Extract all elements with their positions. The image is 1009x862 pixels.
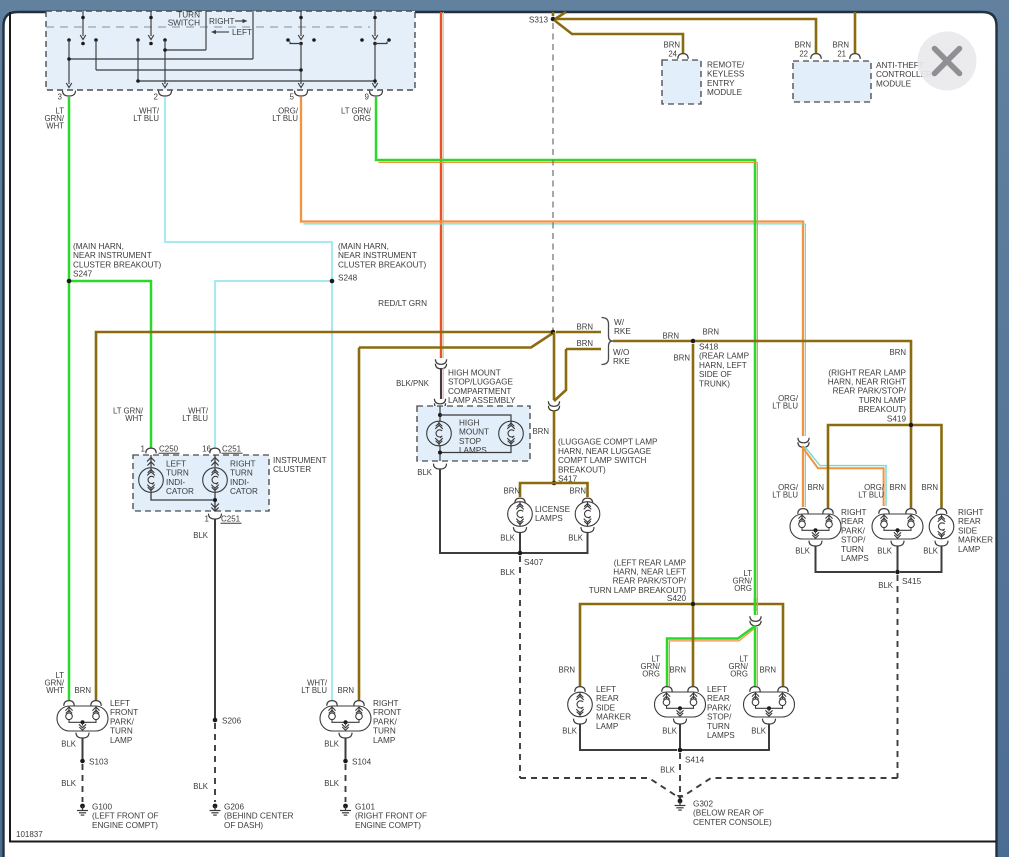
high mount lamps exit wire bbox=[417, 445, 446, 477]
wire label WHT/LT BLU at C251 bbox=[182, 407, 209, 424]
svg-text:LEFT: LEFT bbox=[707, 685, 727, 694]
svg-text:LAMP: LAMP bbox=[373, 736, 396, 745]
svg-text:WHT: WHT bbox=[46, 686, 64, 695]
label LT GRN/WHT at left front lamp bbox=[45, 671, 65, 695]
svg-text:ENGINE COMPT): ENGINE COMPT) bbox=[355, 821, 421, 830]
svg-text:1: 1 bbox=[205, 515, 210, 524]
wire BRN from node down to luggage connector bbox=[553, 332, 556, 400]
svg-text:G100: G100 bbox=[92, 803, 112, 812]
svg-text:REAR PARK/STOP/: REAR PARK/STOP/ bbox=[833, 387, 907, 396]
svg-text:S103: S103 bbox=[89, 758, 109, 767]
anti-theft controller module bbox=[793, 61, 932, 102]
node S419 with note bbox=[828, 368, 914, 427]
connector C251 pin 1 below cluster bbox=[205, 514, 242, 524]
svg-text:BLK: BLK bbox=[500, 534, 516, 543]
svg-text:S248: S248 bbox=[338, 274, 358, 283]
node at dashed and BRN junction bbox=[551, 330, 556, 335]
svg-text:TURN: TURN bbox=[373, 727, 396, 736]
wire BRN from S420 down to left rear lamp1 bbox=[692, 606, 695, 686]
right rear side marker lamp bbox=[929, 509, 954, 546]
svg-text:BRN: BRN bbox=[664, 41, 680, 50]
right rear park/stop/turn lamp 2 bbox=[872, 509, 923, 546]
connector C251 pin 16 bbox=[202, 445, 242, 454]
svg-text:STOP/: STOP/ bbox=[841, 536, 866, 545]
svg-text:(BEHIND CENTER: (BEHIND CENTER bbox=[224, 812, 294, 821]
left rear side marker lamp bbox=[568, 687, 593, 724]
svg-text:WHT: WHT bbox=[46, 122, 64, 131]
svg-text:BLK: BLK bbox=[500, 568, 516, 577]
svg-text:BLK: BLK bbox=[324, 779, 340, 788]
label WHT/LT BLU at right front lamp bbox=[301, 679, 328, 696]
svg-text:BRN: BRN bbox=[890, 348, 906, 357]
svg-text:FRONT: FRONT bbox=[110, 708, 138, 717]
label W/O RKE bbox=[613, 348, 630, 366]
node S103 bbox=[80, 758, 108, 767]
node S418 with note bbox=[691, 339, 750, 389]
svg-text:BLK: BLK bbox=[877, 547, 893, 556]
high mount stop lamp left bbox=[427, 406, 452, 446]
svg-text:101837: 101837 bbox=[16, 830, 43, 839]
svg-text:RIGHT: RIGHT bbox=[841, 508, 866, 517]
svg-text:LAMP: LAMP bbox=[110, 736, 133, 745]
svg-text:22: 22 bbox=[799, 50, 808, 59]
svg-text:(MAIN HARN,: (MAIN HARN, bbox=[338, 242, 389, 251]
svg-text:BLK: BLK bbox=[795, 547, 811, 556]
inline connector on BRN luggage wire bbox=[548, 401, 559, 411]
svg-text:(LEFT FRONT OF: (LEFT FRONT OF bbox=[92, 812, 159, 821]
svg-text:BRN: BRN bbox=[674, 354, 690, 363]
label right rear park stop turn lamps bbox=[841, 508, 869, 563]
left front park/turn lamp bbox=[57, 701, 108, 738]
svg-text:BLK: BLK bbox=[562, 727, 578, 736]
svg-text:KEYLESS: KEYLESS bbox=[707, 70, 745, 79]
svg-text:ENGINE COMPT): ENGINE COMPT) bbox=[92, 821, 158, 830]
label right rear side marker lamp bbox=[958, 508, 993, 554]
wire label LT GRN/WHT pin3 bbox=[45, 107, 65, 131]
svg-text:C250: C250 bbox=[159, 445, 179, 454]
wire BRN from right front lamp diagonal into junction bbox=[358, 348, 361, 701]
svg-text:SWITCH: SWITCH bbox=[168, 19, 200, 28]
svg-text:REAR: REAR bbox=[707, 694, 730, 703]
svg-text:CLUSTER BREAKOUT): CLUSTER BREAKOUT) bbox=[338, 260, 427, 269]
inline connector at high mount entry bbox=[434, 399, 445, 409]
turn switch RIGHT arrow label bbox=[209, 17, 248, 26]
svg-text:S418: S418 bbox=[699, 343, 719, 352]
svg-text:TURN: TURN bbox=[166, 469, 189, 478]
svg-text:BRN: BRN bbox=[75, 686, 91, 695]
svg-text:PARK/: PARK/ bbox=[110, 717, 135, 726]
wire BLK from high mount to S407 bbox=[440, 469, 518, 553]
svg-text:TURN: TURN bbox=[230, 469, 253, 478]
svg-text:REMOTE/: REMOTE/ bbox=[707, 61, 745, 70]
ground G206 bbox=[210, 803, 294, 830]
label license lamps bbox=[535, 505, 571, 523]
dashed wire BLK from S206 to G206 bbox=[193, 723, 215, 802]
svg-text:TRUNK): TRUNK) bbox=[699, 379, 730, 388]
dashed ground bus left to G302 bbox=[520, 778, 678, 797]
switch arm contact group pin3 bbox=[66, 11, 98, 88]
wire BRN from top to anti-theft module pin 21 bbox=[854, 12, 857, 53]
right rear park/stop/turn lamp 1 bbox=[790, 509, 841, 546]
svg-text:RED/LT GRN: RED/LT GRN bbox=[378, 299, 427, 308]
wire WHT/LT BLU from pin2 to S248 bbox=[165, 97, 332, 281]
left rear park/stop/turn lamp 2 bbox=[744, 687, 795, 724]
node S206 bbox=[213, 717, 242, 726]
svg-text:WHT: WHT bbox=[125, 414, 143, 423]
svg-text:21: 21 bbox=[837, 50, 846, 59]
svg-text:TURN: TURN bbox=[110, 727, 133, 736]
svg-text:BLK: BLK bbox=[193, 531, 209, 540]
dashed wire BLK S104 to G101 bbox=[324, 764, 345, 802]
svg-text:RIGHT: RIGHT bbox=[209, 17, 234, 26]
svg-text:BRN: BRN bbox=[760, 666, 776, 675]
svg-text:BLK: BLK bbox=[61, 740, 77, 749]
anti-theft module pin 21 connector bbox=[850, 54, 860, 59]
svg-text:TURN LAMP: TURN LAMP bbox=[859, 396, 907, 405]
svg-text:REAR: REAR bbox=[596, 694, 619, 703]
labels at right rear lamp pins bbox=[772, 483, 938, 500]
wire BLK license lamps to S407 bbox=[519, 532, 521, 553]
wire LT GRN/ORG crossing over S420 brown bbox=[755, 598, 757, 611]
svg-text:STOP/LUGGAGE: STOP/LUGGAGE bbox=[448, 378, 513, 387]
svg-text:BRN: BRN bbox=[533, 427, 549, 436]
svg-text:S313: S313 bbox=[529, 16, 549, 25]
inline connector on LT GRN/ORG wire bbox=[750, 616, 761, 626]
svg-text:TURN: TURN bbox=[841, 545, 864, 554]
wire label ORG/LT BLU pin5 bbox=[272, 107, 299, 124]
svg-text:BRN: BRN bbox=[703, 328, 719, 337]
svg-text:NEAR INSTRUMENT: NEAR INSTRUMENT bbox=[338, 251, 417, 260]
svg-text:S414: S414 bbox=[685, 756, 705, 765]
svg-text:ANTI-THEFT: ANTI-THEFT bbox=[876, 61, 924, 70]
wire branch WHT/LT BLU from S248 to C251 pin16 bbox=[215, 281, 332, 448]
svg-text:3: 3 bbox=[58, 93, 63, 102]
svg-text:MARKER: MARKER bbox=[958, 536, 993, 545]
svg-text:BLK: BLK bbox=[324, 740, 340, 749]
svg-text:RIGHT: RIGHT bbox=[230, 460, 255, 469]
svg-text:LAMPS: LAMPS bbox=[535, 514, 563, 523]
svg-text:LT BLU: LT BLU bbox=[772, 491, 798, 500]
svg-text:G302: G302 bbox=[693, 800, 713, 809]
wire WHT/LT BLU from S248 down to right front lamp bbox=[331, 281, 333, 700]
right turn indicator lamp bbox=[203, 455, 258, 496]
svg-text:PARK/: PARK/ bbox=[707, 703, 732, 712]
wire branch ORG/LT BLU diagonal to right rear lamp 2 bbox=[803, 447, 886, 507]
svg-text:OF DASH): OF DASH) bbox=[224, 821, 263, 830]
high mount stop lamp assembly label bbox=[448, 369, 516, 406]
svg-text:BLK: BLK bbox=[751, 727, 767, 736]
wire BLK from cluster to S206 bbox=[193, 519, 215, 719]
svg-text:ORG: ORG bbox=[734, 584, 752, 593]
svg-text:ORG: ORG bbox=[642, 670, 660, 679]
svg-text:C251: C251 bbox=[222, 445, 242, 454]
wire LT GRN/ORG below connector to left rear lamp 2 bbox=[755, 625, 757, 686]
instrument cluster box bbox=[133, 455, 327, 511]
svg-text:BRN: BRN bbox=[570, 487, 586, 496]
svg-text:STOP: STOP bbox=[459, 437, 482, 446]
svg-text:FRONT: FRONT bbox=[373, 708, 401, 717]
svg-text:G206: G206 bbox=[224, 803, 244, 812]
label left front park/turn lamp bbox=[110, 699, 138, 745]
ground G302 bbox=[675, 795, 772, 827]
node S415 bbox=[895, 570, 921, 586]
node S247 bbox=[67, 242, 162, 283]
wire BRN W/O RKE branch down to luggage connector bbox=[554, 349, 566, 401]
wire BRN from S419 to right rear side marker bbox=[913, 425, 942, 508]
svg-text:BRN: BRN bbox=[922, 483, 938, 492]
svg-text:BRN: BRN bbox=[890, 483, 906, 492]
svg-text:S419: S419 bbox=[887, 414, 907, 423]
wire ORG/LT BLU from pin5 across to right rear breakout bbox=[301, 97, 805, 436]
svg-text:S407: S407 bbox=[524, 558, 544, 567]
left rear park/stop/turn lamp 1 bbox=[655, 687, 706, 724]
labels BLK right rear bbox=[795, 547, 939, 556]
svg-text:RIGHT: RIGHT bbox=[958, 508, 983, 517]
label BRN 24 bbox=[664, 41, 680, 59]
node S104 bbox=[343, 758, 371, 767]
svg-text:STOP/: STOP/ bbox=[707, 713, 732, 722]
label W/ RKE bbox=[614, 318, 631, 336]
wire branch LT GRN/WHT from S247 to C250 bbox=[69, 281, 151, 448]
wire BRN from S313 to anti-theft module pin 22 bbox=[556, 19, 816, 53]
svg-text:1: 1 bbox=[141, 445, 146, 454]
pin 3 connector bbox=[58, 91, 76, 102]
svg-text:BREAKOUT): BREAKOUT) bbox=[858, 405, 906, 414]
switch arm contact group pin5 bbox=[286, 11, 316, 88]
svg-text:HIGH MOUNT: HIGH MOUNT bbox=[448, 369, 501, 378]
svg-text:LAMP: LAMP bbox=[958, 545, 981, 554]
svg-text:ORG: ORG bbox=[730, 670, 748, 679]
dashed wire from S313 down to brown junction bbox=[552, 23, 554, 330]
license lamp right bbox=[575, 498, 600, 532]
svg-text:ORG: ORG bbox=[353, 114, 371, 123]
svg-text:MODULE: MODULE bbox=[707, 88, 743, 97]
wires BLK left rear lamps to S414 bbox=[580, 724, 769, 750]
label LT GRN/ORG at green wire bbox=[733, 569, 753, 593]
svg-text:LICENSE: LICENSE bbox=[535, 505, 571, 514]
wire BRN from S420 to left rear lamp2 bbox=[695, 604, 783, 686]
svg-text:CATOR: CATOR bbox=[166, 487, 194, 496]
svg-text:(RIGHT FRONT OF: (RIGHT FRONT OF bbox=[355, 812, 427, 821]
svg-text:W/O: W/O bbox=[613, 348, 629, 357]
wire BRN from S417 to right license lamp bbox=[554, 483, 588, 497]
svg-text:BRN: BRN bbox=[670, 666, 686, 675]
label right front park/turn lamp bbox=[373, 699, 401, 745]
svg-text:BRN: BRN bbox=[504, 487, 520, 496]
svg-text:SIDE OF: SIDE OF bbox=[699, 370, 732, 379]
svg-text:W/: W/ bbox=[614, 318, 625, 327]
svg-text:LEFT: LEFT bbox=[166, 460, 186, 469]
svg-text:HIGH: HIGH bbox=[459, 419, 480, 428]
svg-text:LEFT: LEFT bbox=[596, 685, 616, 694]
svg-text:SIDE: SIDE bbox=[958, 526, 978, 535]
svg-text:(LUGGAGE COMPT LAMP: (LUGGAGE COMPT LAMP bbox=[558, 438, 658, 447]
left turn indicator lamp bbox=[139, 455, 194, 496]
connector C250 pin 1 bbox=[141, 445, 180, 454]
svg-text:BRN: BRN bbox=[577, 323, 593, 332]
svg-text:S415: S415 bbox=[902, 577, 922, 586]
svg-text:HARN, LEFT: HARN, LEFT bbox=[699, 361, 747, 370]
svg-text:S420: S420 bbox=[667, 594, 687, 603]
svg-text:BLK: BLK bbox=[660, 766, 676, 775]
svg-text:MARKER: MARKER bbox=[596, 713, 631, 722]
svg-text:MODULE: MODULE bbox=[876, 79, 912, 88]
svg-text:LT BLU: LT BLU bbox=[272, 114, 298, 123]
svg-text:RKE: RKE bbox=[613, 357, 630, 366]
svg-text:S247: S247 bbox=[73, 270, 93, 279]
svg-text:CENTER CONSOLE): CENTER CONSOLE) bbox=[693, 818, 772, 827]
wire BRN diagonal from top right into S313 bbox=[555, 12, 566, 19]
svg-text:LEFT: LEFT bbox=[232, 28, 252, 37]
svg-text:BLK: BLK bbox=[878, 581, 894, 590]
label BRN 21 bbox=[833, 41, 849, 59]
svg-text:PARK/: PARK/ bbox=[373, 717, 398, 726]
label BRN 22 bbox=[795, 41, 811, 59]
turn switch box bbox=[46, 11, 415, 91]
svg-text:RIGHT: RIGHT bbox=[373, 699, 398, 708]
wire BRN stub into S313 from top bbox=[552, 12, 555, 16]
label left rear side marker lamp bbox=[596, 685, 631, 731]
svg-text:BLK/PNK: BLK/PNK bbox=[396, 379, 430, 388]
labels BLK left rear bbox=[562, 727, 767, 736]
anti-theft module pin 22 connector bbox=[811, 54, 821, 59]
close button bbox=[918, 32, 977, 91]
svg-text:BLK: BLK bbox=[193, 782, 209, 791]
node S420 with note bbox=[589, 558, 696, 606]
svg-text:REAR: REAR bbox=[958, 517, 981, 526]
turn switch LEFT arrow label bbox=[211, 28, 252, 37]
svg-text:LAMP: LAMP bbox=[596, 722, 619, 731]
svg-text:HARN, NEAR LEFT: HARN, NEAR LEFT bbox=[613, 568, 686, 577]
svg-text:BREAKOUT): BREAKOUT) bbox=[558, 465, 606, 474]
high mount stop lamps box bbox=[417, 406, 530, 461]
wire ORG/LT BLU below connector to right rear lamp 1 bbox=[803, 446, 805, 507]
svg-text:COMPT LAMP SWITCH: COMPT LAMP SWITCH bbox=[558, 456, 646, 465]
svg-text:LT BLU: LT BLU bbox=[858, 491, 884, 500]
svg-text:LAMP ASSEMBLY: LAMP ASSEMBLY bbox=[448, 396, 516, 405]
wire LT GRN/ORG from pin9 across and down bbox=[376, 97, 757, 615]
svg-text:(LEFT REAR LAMP: (LEFT REAR LAMP bbox=[614, 558, 687, 567]
svg-text:LAMPS: LAMPS bbox=[707, 731, 735, 740]
svg-text:BRN: BRN bbox=[577, 339, 593, 348]
wire BRN brace output to S418 bbox=[613, 332, 691, 342]
svg-text:LAMPS: LAMPS bbox=[459, 446, 487, 455]
wire LT GRN/WHT from pin3 to S247 to left front lamp bbox=[68, 97, 71, 700]
svg-text:MOUNT: MOUNT bbox=[459, 428, 489, 437]
svg-text:LT BLU: LT BLU bbox=[301, 686, 327, 695]
svg-text:BRN: BRN bbox=[338, 686, 354, 695]
license lamp left bbox=[508, 498, 533, 532]
wire label LT GRN/WHT at C250 bbox=[113, 407, 144, 424]
svg-text:BRN: BRN bbox=[808, 483, 824, 492]
dashed ground bus right to G302 bbox=[682, 778, 898, 797]
svg-text:REAR: REAR bbox=[841, 517, 864, 526]
svg-text:(BELOW REAR OF: (BELOW REAR OF bbox=[693, 809, 764, 818]
wire BRN from S419 down to right rear lamp2 bbox=[910, 427, 913, 508]
svg-text:NEAR INSTRUMENT: NEAR INSTRUMENT bbox=[73, 251, 152, 260]
svg-text:INDI-: INDI- bbox=[230, 478, 249, 487]
node S417 with harness note bbox=[552, 438, 658, 486]
svg-text:G101: G101 bbox=[355, 803, 375, 812]
node S313 bbox=[529, 16, 555, 25]
svg-text:LEFT: LEFT bbox=[110, 699, 130, 708]
wire BRN from S418 to S419 bbox=[695, 328, 911, 424]
svg-text:BRN: BRN bbox=[559, 666, 575, 675]
wire BRN from S420 to left rear side marker bbox=[580, 604, 691, 686]
turn switch internal wiring bbox=[69, 11, 375, 81]
switch arm contact group pin2 bbox=[136, 11, 168, 88]
svg-text:CLUSTER BREAKOUT): CLUSTER BREAKOUT) bbox=[73, 260, 162, 269]
svg-text:S104: S104 bbox=[352, 758, 372, 767]
svg-text:REAR PARK/STOP/: REAR PARK/STOP/ bbox=[613, 577, 687, 586]
label ORG/LT BLU above connector bbox=[772, 394, 799, 411]
svg-text:COMPARTMENT: COMPARTMENT bbox=[448, 387, 511, 396]
labels at left rear lamp pins bbox=[559, 655, 776, 679]
svg-text:BLK: BLK bbox=[61, 779, 77, 788]
dashed wire BLK from S415 to ground bus bbox=[878, 575, 897, 778]
wire BLK left front lamp to S103 bbox=[82, 738, 84, 760]
wire label WHT/LT BLU pin2 bbox=[133, 107, 160, 124]
svg-text:LT BLU: LT BLU bbox=[772, 402, 798, 411]
svg-text:INSTRUMENT: INSTRUMENT bbox=[273, 456, 327, 465]
wire RED/LT GRN from top bbox=[441, 12, 443, 358]
brace for RKE options bbox=[602, 318, 614, 365]
wires BLK right rear lamps to S415 bbox=[816, 546, 942, 572]
svg-text:2: 2 bbox=[154, 93, 159, 102]
wire label LT GRN/ORG pin9 bbox=[341, 107, 372, 124]
wire BLK right front lamp to S104 bbox=[345, 738, 347, 760]
remote keyless entry module pin 24 connector bbox=[678, 54, 688, 59]
svg-text:9: 9 bbox=[365, 93, 370, 102]
svg-text:BLK: BLK bbox=[662, 727, 678, 736]
remote keyless entry module bbox=[662, 60, 745, 104]
svg-text:CATOR: CATOR bbox=[230, 487, 258, 496]
svg-text:BLK: BLK bbox=[417, 468, 433, 477]
svg-text:LAMPS: LAMPS bbox=[841, 554, 869, 563]
switch arm contact group pin9 bbox=[360, 11, 391, 88]
inline connector on RED/LT GRN wire bbox=[435, 359, 446, 369]
svg-text:TURN: TURN bbox=[707, 722, 730, 731]
svg-text:24: 24 bbox=[668, 50, 677, 59]
wire BRN junction to left front lamp corner bbox=[96, 332, 553, 700]
ground G100 bbox=[77, 803, 159, 830]
svg-text:LT BLU: LT BLU bbox=[182, 414, 208, 423]
wire joining indicator lamps inside cluster bbox=[151, 493, 219, 512]
svg-text:RKE: RKE bbox=[614, 327, 631, 336]
svg-text:BLK: BLK bbox=[568, 534, 584, 543]
wire BLK/PNK into high mount assembly bbox=[441, 368, 443, 399]
svg-text:(MAIN HARN,: (MAIN HARN, bbox=[73, 242, 124, 251]
wire BRN W/O RKE to brace bbox=[566, 339, 601, 349]
pin 2 connector bbox=[154, 91, 172, 102]
dashed wire BLK from S414 to G302 bbox=[660, 753, 680, 795]
svg-text:HARN, NEAR LUGGAGE: HARN, NEAR LUGGAGE bbox=[558, 447, 652, 456]
inline connector on ORG/LT BLU wire bbox=[798, 438, 809, 448]
dashed wire BLK from S407 to ground bus bbox=[500, 556, 520, 778]
svg-text:CLUSTER: CLUSTER bbox=[273, 465, 311, 474]
right front park/turn lamp bbox=[320, 701, 371, 738]
wire BRN W/RKE to brace bbox=[556, 323, 601, 333]
svg-text:SIDE: SIDE bbox=[596, 703, 616, 712]
wire BRN from S419 to right rear lamp1 bbox=[828, 425, 909, 508]
wire BRN from connector to S417 bbox=[533, 410, 554, 481]
wire BRN from S418 down to S420 bbox=[674, 344, 693, 602]
svg-text:LT BLU: LT BLU bbox=[133, 114, 159, 123]
svg-text:BRN: BRN bbox=[833, 41, 849, 50]
svg-text:BLK: BLK bbox=[923, 547, 939, 556]
wire BRN from S417 to left license lamp bbox=[520, 483, 554, 497]
node S248 bbox=[330, 242, 427, 283]
